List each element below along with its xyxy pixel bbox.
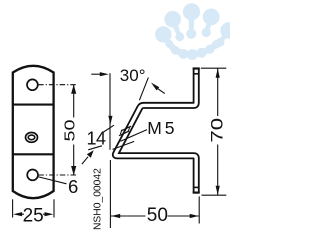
dimension 25 extension lines [12, 199, 14, 217]
svg-text:NSH0_00042: NSH0_00042 [93, 168, 104, 230]
bend line lower [13, 153, 54, 155]
svg-text:25: 25 [23, 205, 44, 226]
plate outline [13, 66, 54, 198]
angle arrow on diagonal leg [151, 83, 159, 91]
svg-text:1: 1 [87, 128, 97, 148]
M5 thread crest lines [120, 130, 122, 135]
dim 50 extension left [109, 160, 111, 228]
hole bottom [27, 170, 38, 181]
top flange end cap [193, 67, 200, 69]
svg-text:6: 6 [68, 176, 78, 197]
dim 14 tick lower [88, 146, 102, 150]
angle diagonal leg [139, 77, 148, 100]
svg-text:50: 50 [147, 205, 168, 226]
dim 14 upper arrow [108, 116, 112, 125]
dimension 50 line (hole spacing) [73, 85, 75, 118]
label 6 leader [39, 177, 67, 184]
angle arrow horizontal [91, 73, 101, 75]
svg-text:5: 5 [165, 118, 175, 138]
dim 14 tick upper [104, 125, 115, 132]
svg-text:30°: 30° [120, 66, 146, 85]
dim 50 line [111, 215, 146, 217]
dimension 25 line and arrows [18, 213, 24, 215]
dim 70 extension bottom [202, 194, 227, 196]
dim 14 lower arrow [87, 150, 94, 157]
dim 50 extension right [198, 196, 200, 223]
centerline bottom hole [38, 174, 76, 176]
bend line upper [13, 104, 54, 106]
svg-text:70: 70 [208, 118, 227, 143]
svg-text:M: M [147, 118, 162, 138]
svg-text:50: 50 [61, 119, 78, 141]
svg-text:4: 4 [96, 128, 106, 148]
M5 leader X [121, 130, 148, 142]
Z profile strip [115, 68, 196, 193]
dim 70 extension top [201, 67, 227, 69]
dim 70 line [217, 69, 219, 117]
angle vertical leg [109, 73, 111, 150]
bottom flange end cap [193, 192, 200, 194]
centerline top hole [38, 84, 76, 86]
M5 hole front view (double ellipse) [26, 133, 38, 143]
watermark logo [155, 3, 237, 60]
hole top [27, 79, 38, 90]
M5 tapped hole on diagonal: ticks [121, 126, 131, 131]
